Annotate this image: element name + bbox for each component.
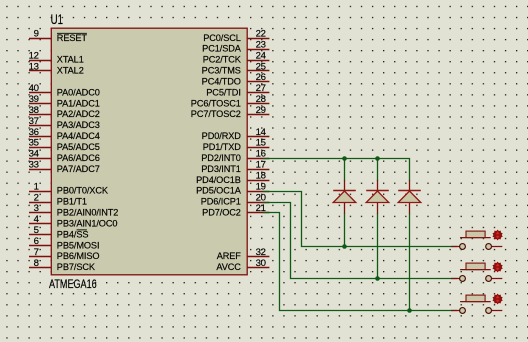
svg-text:PC5/TDI: PC5/TDI xyxy=(206,87,241,97)
junction node 5 xyxy=(407,308,412,313)
svg-text:27: 27 xyxy=(256,83,266,94)
value label ATMEGA16 xyxy=(49,277,97,291)
pin 33 (PA7/ADC7) left xyxy=(29,160,100,174)
svg-text:14: 14 xyxy=(256,127,267,138)
svg-text:PA1/ADC1: PA1/ADC1 xyxy=(57,98,100,108)
pin 2 (PB1/T1) left xyxy=(29,192,87,206)
svg-text:15: 15 xyxy=(256,138,266,149)
pin 37 (PA3/ADC3) left xyxy=(29,116,100,130)
svg-text:24: 24 xyxy=(256,50,267,61)
svg-text:23: 23 xyxy=(256,39,266,50)
actuator star for SW3 xyxy=(492,294,502,305)
wire: PD5 net to button SW1 row xyxy=(263,192,457,247)
push button SW1 xyxy=(451,231,502,249)
svg-text:AREF: AREF xyxy=(217,251,242,261)
wire: D3 bottom to PD7 net xyxy=(409,213,411,311)
svg-text:35: 35 xyxy=(29,138,39,149)
diode D2 xyxy=(366,180,389,214)
pin 25 (PC3/TMS) right xyxy=(202,61,270,75)
pin 4 (PB3/AIN1/OC0) left xyxy=(29,214,117,228)
pin 9 (RESET) left xyxy=(29,29,87,43)
wire: D1 top to rail xyxy=(344,159,346,181)
svg-text:12: 12 xyxy=(29,50,39,61)
svg-text:XTAL1: XTAL1 xyxy=(57,55,84,65)
svg-text:PA7/ADC7: PA7/ADC7 xyxy=(57,164,100,174)
wire: PD2 net rail to diodes xyxy=(263,159,410,181)
svg-text:PB6/MISO: PB6/MISO xyxy=(57,251,100,261)
pin 15 (PD1/TXD) right xyxy=(203,138,270,152)
pin 24 (PC2/TCK) right xyxy=(203,50,270,64)
pin 1 (PB0/T0/XCK) left xyxy=(29,181,109,195)
pin 21 (PD7/OC2) right xyxy=(202,203,269,217)
svg-text:PD6/ICP1: PD6/ICP1 xyxy=(201,197,241,207)
pin 12 (XTAL1) left xyxy=(29,50,84,64)
svg-text:PD7/OC2: PD7/OC2 xyxy=(202,208,241,218)
pin 7 (PB6/MISO) left xyxy=(29,247,99,261)
svg-text:PD1/TXD: PD1/TXD xyxy=(203,142,242,152)
svg-text:PB2/AIN0/INT2: PB2/AIN0/INT2 xyxy=(57,208,119,218)
svg-text:PD4/OC1B: PD4/OC1B xyxy=(196,175,241,185)
reference designator U1 xyxy=(51,12,63,27)
svg-text:PC2/TCK: PC2/TCK xyxy=(203,55,242,65)
pin 32 (AREF) right xyxy=(217,247,270,261)
svg-text:36: 36 xyxy=(29,127,39,138)
svg-text:32: 32 xyxy=(256,247,266,258)
wire: D1 bottom to PD5 net xyxy=(344,213,346,247)
diode D1 xyxy=(333,180,356,214)
svg-text:PD5/OC1A: PD5/OC1A xyxy=(196,186,242,196)
pin 36 (PA4/ADC4) left xyxy=(29,127,100,141)
svg-text:3: 3 xyxy=(34,203,39,214)
junction node 3 xyxy=(342,244,347,249)
pin 19 (PD5/OC1A) right xyxy=(196,181,269,195)
svg-text:30: 30 xyxy=(256,258,266,269)
pin 23 (PC1/SDA) right xyxy=(202,39,269,53)
pin 39 (PA1/ADC1) left xyxy=(29,94,100,108)
pin 20 (PD6/ICP1) right xyxy=(201,192,270,206)
actuator star for SW1 xyxy=(492,230,502,241)
pin 30 (AVCC) right xyxy=(216,258,269,272)
svg-text:PC4/TDO: PC4/TDO xyxy=(202,76,241,86)
svg-text:20: 20 xyxy=(256,192,266,203)
svg-text:38: 38 xyxy=(29,105,39,116)
pin 34 (PA6/ADC6) left xyxy=(29,149,100,163)
pin 8 (PB7/SCK) left xyxy=(29,258,96,272)
diode D3 xyxy=(398,180,421,214)
wire: D2 top to rail xyxy=(377,159,379,181)
svg-text:26: 26 xyxy=(256,72,266,83)
pin 35 (PA5/ADC5) left xyxy=(29,138,100,152)
svg-text:13: 13 xyxy=(29,61,39,72)
svg-text:1: 1 xyxy=(34,181,39,192)
svg-text:PB7/SCK: PB7/SCK xyxy=(57,262,96,272)
wire: PD6 net to button SW2 row xyxy=(263,203,457,279)
pin 3 (PB2/AIN0/INT2) left xyxy=(29,203,118,217)
junction node 4 xyxy=(375,276,380,281)
pin 38 (PA2/ADC2) left xyxy=(29,105,100,119)
svg-text:PC7/TOSC2: PC7/TOSC2 xyxy=(191,109,241,119)
svg-text:PA0/ADC0: PA0/ADC0 xyxy=(57,87,100,97)
svg-text:5: 5 xyxy=(34,225,39,236)
junction node 2 xyxy=(375,156,380,161)
svg-text:XTAL2: XTAL2 xyxy=(57,66,84,76)
pin 27 (PC5/TDI) right xyxy=(206,83,269,97)
pin 40 (PA0/ADC0) left xyxy=(29,83,100,97)
pin 22 (PC0/SCL) right xyxy=(203,29,269,43)
svg-text:PB4/SS: PB4/SS xyxy=(57,229,89,239)
IC U1 body (ATMEGA16 microcontroller) xyxy=(51,28,247,275)
pin 17 (PD3/INT1) right xyxy=(201,160,269,174)
pin 5 (PB4/SS) left xyxy=(29,225,88,239)
pin 13 (XTAL2) left xyxy=(29,61,84,75)
svg-text:2: 2 xyxy=(34,192,39,203)
svg-text:PD2/INT0: PD2/INT0 xyxy=(201,153,241,163)
svg-text:PA5/ADC5: PA5/ADC5 xyxy=(57,142,100,152)
svg-text:PA2/ADC2: PA2/ADC2 xyxy=(57,109,100,119)
svg-text:PC0/SCL: PC0/SCL xyxy=(203,33,241,43)
svg-text:PB0/T0/XCK: PB0/T0/XCK xyxy=(57,186,109,196)
pin 26 (PC4/TDO) right xyxy=(202,72,270,86)
svg-text:PA6/ADC6: PA6/ADC6 xyxy=(57,153,100,163)
svg-text:18: 18 xyxy=(256,170,266,181)
svg-text:PD0/RXD: PD0/RXD xyxy=(202,131,242,141)
junction node 1 xyxy=(342,156,347,161)
svg-text:PB5/MOSI: PB5/MOSI xyxy=(57,240,100,250)
svg-text:PB1/T1: PB1/T1 xyxy=(57,197,87,207)
pin 6 (PB5/MOSI) left xyxy=(29,236,99,250)
svg-text:34: 34 xyxy=(29,149,40,160)
svg-text:PA4/ADC4: PA4/ADC4 xyxy=(57,131,100,141)
svg-text:PD3/INT1: PD3/INT1 xyxy=(201,164,241,174)
push button SW3 xyxy=(451,295,502,313)
svg-text:PB3/AIN1/OC0: PB3/AIN1/OC0 xyxy=(57,218,118,228)
pin 16 (PD2/INT0) right xyxy=(201,149,269,163)
svg-text:33: 33 xyxy=(29,160,39,171)
svg-text:39: 39 xyxy=(29,94,39,105)
pin 28 (PC6/TOSC1) right xyxy=(191,94,270,108)
push button SW2 xyxy=(451,263,502,281)
pin 18 (PD4/OC1B) right xyxy=(196,170,269,184)
svg-text:AVCC: AVCC xyxy=(216,262,241,272)
svg-text:9: 9 xyxy=(34,29,39,40)
pin 14 (PD0/RXD) right xyxy=(202,127,270,141)
svg-text:25: 25 xyxy=(256,61,266,72)
svg-text:37: 37 xyxy=(29,116,39,127)
svg-text:PC1/SDA: PC1/SDA xyxy=(202,44,242,54)
svg-text:29: 29 xyxy=(256,105,266,116)
svg-text:22: 22 xyxy=(256,29,266,40)
svg-text:19: 19 xyxy=(256,181,266,192)
svg-text:PA3/ADC3: PA3/ADC3 xyxy=(57,120,100,130)
wire: PD7 net to button SW3 row xyxy=(263,213,457,311)
svg-text:17: 17 xyxy=(256,160,266,171)
svg-text:6: 6 xyxy=(34,236,39,247)
svg-text:PC3/TMS: PC3/TMS xyxy=(202,66,241,76)
svg-text:RESET: RESET xyxy=(57,33,88,43)
svg-text:PC6/TOSC1: PC6/TOSC1 xyxy=(191,98,241,108)
svg-text:40: 40 xyxy=(29,83,39,94)
svg-text:U1: U1 xyxy=(51,12,63,27)
wire: D2 bottom to PD6 net xyxy=(377,213,379,279)
svg-text:28: 28 xyxy=(256,94,266,105)
actuator star for SW2 xyxy=(492,262,502,273)
pin 29 (PC7/TOSC2) right xyxy=(191,105,270,119)
svg-text:7: 7 xyxy=(34,247,39,258)
svg-text:ATMEGA16: ATMEGA16 xyxy=(49,277,97,291)
svg-text:8: 8 xyxy=(34,258,39,269)
